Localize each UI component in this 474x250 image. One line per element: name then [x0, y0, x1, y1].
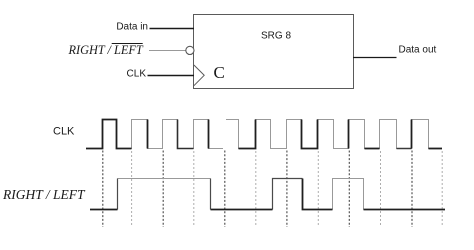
- svg-text:SRG 8: SRG 8: [261, 31, 291, 42]
- R/L waveform light trace (high 117-210, pulse 332-363): [118, 179, 364, 210]
- dashed gridline t11: [411, 151, 413, 228]
- dashed gridline t8: [317, 151, 319, 226]
- dashed gridline t1: [102, 151, 104, 228]
- CLK waveform dark segment j (low 428-442): [429, 148, 443, 150]
- CLK waveform dark segment h (low 364-380): [365, 148, 380, 150]
- CLK waveform dark segment i (rise t=411): [411, 120, 413, 149]
- CLK waveform dark segment d (fall t=208): [208, 120, 210, 149]
- dashed gridline t2: [131, 151, 133, 226]
- wire Data out: [353, 57, 397, 59]
- wire Data in: [150, 28, 195, 30]
- CLK waveform dark segment g (rise t=348): [348, 120, 350, 149]
- svg-text:C: C: [214, 63, 225, 82]
- dashed gridline t4: [193, 151, 195, 226]
- dashed gridline t9: [348, 151, 350, 228]
- shift register box SRG 8: [194, 15, 354, 89]
- svg-text:RIGHT / LEFT: RIGHT / LEFT: [2, 187, 86, 202]
- dashed gridline t3: [162, 151, 164, 228]
- dashed gridline t12: [441, 151, 443, 226]
- R/L waveform medium trace (edges and high 272-302): [118, 179, 303, 210]
- wire RIGHT/LEFT select: [149, 50, 186, 52]
- dashed gridline t5: [224, 151, 226, 228]
- CLK waveform dark segment c (fall t=177 and low): [178, 120, 194, 149]
- svg-text:RIGHT / LEFT: RIGHT / LEFT: [68, 43, 144, 57]
- dashed gridline t7: [286, 151, 288, 228]
- CLK waveform dark segment b (fall t=147): [147, 120, 149, 149]
- clock edge triangle: [194, 65, 204, 86]
- R/L waveform dark segment a (low 90-117): [90, 209, 118, 211]
- svg-text:CLK: CLK: [53, 126, 75, 138]
- CLK waveform (light trace): [86, 120, 442, 149]
- R/L waveform dark segment b (low 210-272): [211, 209, 273, 211]
- svg-text:Data out: Data out: [399, 45, 437, 56]
- inversion bubble: [186, 46, 194, 54]
- CLK waveform dark segment a: [86, 120, 132, 149]
- dashed gridline t10: [380, 151, 382, 226]
- CLK waveform dark segment e (low and rise t=255): [239, 120, 256, 149]
- dashed gridline t6: [255, 151, 257, 226]
- wire CLK: [148, 75, 195, 77]
- R/L waveform dark segment c (fall 302 and low to 332): [303, 179, 333, 210]
- R/L waveform dark segment d (low 363-445): [364, 209, 446, 211]
- svg-text:CLK: CLK: [127, 69, 147, 80]
- CLK waveform medium segment (low 396-411): [397, 148, 412, 150]
- CLK waveform dark segment f (fall t=301, low, rise t=317): [302, 120, 318, 149]
- svg-text:Data in: Data in: [116, 22, 148, 33]
- overline over LEFT: [112, 43, 143, 45]
